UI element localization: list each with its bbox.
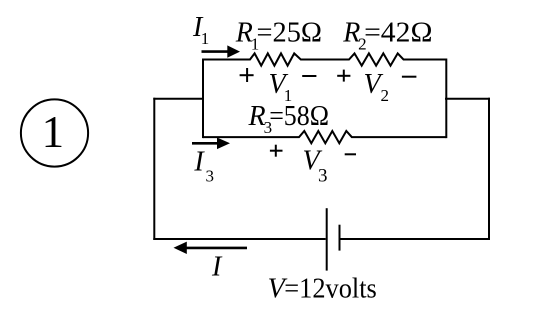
svg-text:=25Ω: =25Ω	[257, 17, 323, 48]
svg-text:1: 1	[201, 29, 210, 48]
svg-text:I: I	[211, 252, 223, 283]
svg-text:=12volts: =12volts	[284, 274, 377, 305]
svg-text:=58Ω: =58Ω	[269, 101, 329, 132]
svg-text:=42Ω: =42Ω	[364, 17, 432, 48]
svg-text:2: 2	[381, 86, 390, 105]
svg-text:3: 3	[206, 166, 215, 185]
svg-text:3: 3	[318, 166, 328, 187]
svg-text:I: I	[193, 147, 205, 178]
svg-text:1: 1	[42, 107, 65, 157]
